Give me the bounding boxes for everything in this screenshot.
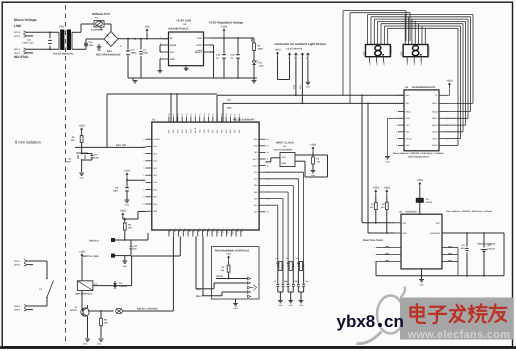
svg-text:Y3: Y3 <box>296 257 298 260</box>
svg-text:1: 1 <box>288 57 289 60</box>
svg-text:RB7: RB7 <box>183 229 186 233</box>
svg-text:65: 65 <box>181 114 184 116</box>
svg-text:RG3: RG3 <box>190 129 193 133</box>
svg-text:8: 8 <box>143 188 144 191</box>
svg-text:CZ-2T-2004-04: CZ-2T-2004-04 <box>286 48 303 51</box>
svg-text:RG5: RG5 <box>254 145 258 148</box>
svg-text:8: 8 <box>396 144 397 147</box>
svg-text:GND: GND <box>170 58 175 61</box>
svg-text:+3.3V Regulated Voltage: +3.3V Regulated Voltage <box>209 20 244 24</box>
svg-text:9: 9 <box>143 196 144 199</box>
svg-text:33: 33 <box>250 229 253 231</box>
svg-text:CLK: CLK <box>282 156 287 159</box>
svg-text:55: 55 <box>225 114 228 116</box>
svg-text:100n: 100n <box>460 247 465 250</box>
svg-text:10: 10 <box>446 137 448 140</box>
svg-text:INPUT CLOCK: INPUT CLOCK <box>276 141 294 144</box>
svg-text:C6: C6 <box>284 280 286 283</box>
svg-text:50: 50 <box>267 138 269 141</box>
svg-text:SEGG: SEGG <box>432 144 438 147</box>
svg-text:2: 2 <box>396 102 397 105</box>
svg-text:RG2: RG2 <box>185 129 188 133</box>
svg-text:32: 32 <box>245 229 248 231</box>
svg-text:CKOUT: CKOUT <box>406 137 414 140</box>
svg-text:48: 48 <box>267 151 269 154</box>
svg-text:RD5: RD5 <box>202 229 205 233</box>
svg-text:+3V3: +3V3 <box>310 143 317 146</box>
svg-text:OSC1: OSC1 <box>253 158 258 161</box>
svg-text:10: 10 <box>142 203 144 206</box>
svg-text:9: 9 <box>446 144 447 147</box>
svg-text:CAP-: CAP- <box>406 124 411 127</box>
svg-text:100n: 100n <box>94 157 100 160</box>
svg-text:SQW/INTB: SQW/INTB <box>430 232 441 235</box>
svg-text:RB1: RB1 <box>254 191 258 194</box>
svg-text:+3V3: +3V3 <box>79 124 86 127</box>
svg-text:SEGA: SEGA <box>432 102 438 105</box>
svg-text:PROGRAMMING INTERFACE: PROGRAMMING INTERFACE <box>215 250 250 253</box>
svg-text:100n: 100n <box>113 190 119 193</box>
svg-text:4: 4 <box>374 260 375 263</box>
svg-text:53: 53 <box>234 114 237 116</box>
svg-text:+3V3: +3V3 <box>417 179 424 182</box>
svg-text:GND: GND <box>233 307 238 310</box>
svg-text:RC0: RC0 <box>236 229 239 233</box>
svg-text:66: 66 <box>177 114 180 116</box>
svg-text:JP3-2: JP3-2 <box>14 263 21 266</box>
svg-text:+3V3: +3V3 <box>221 25 228 28</box>
svg-text:10n: 10n <box>133 248 137 251</box>
svg-text:GND: GND <box>406 117 411 120</box>
svg-text:SDA: SDA <box>227 107 232 110</box>
svg-text:RB3: RB3 <box>153 196 157 199</box>
svg-text:SDA: SDA <box>403 232 408 235</box>
svg-text:SEGD: SEGD <box>432 124 438 127</box>
svg-text:RECTIFIER-BRIDGE: RECTIFIER-BRIDGE <box>96 53 121 56</box>
svg-text:OSC: OSC <box>406 131 411 134</box>
svg-text:MAX6958/6959AAPE: MAX6958/6959AAPE <box>412 86 436 89</box>
svg-text:Y1: Y1 <box>275 257 277 260</box>
svg-text:Standby Battery: Standby Battery <box>478 243 496 246</box>
svg-text:GND: GND <box>419 284 424 287</box>
svg-text:T1OSO: T1OSO <box>231 229 234 236</box>
svg-text:58: 58 <box>212 114 215 116</box>
svg-text:61: 61 <box>199 114 202 116</box>
svg-text:SWITCH: SWITCH <box>89 240 99 243</box>
svg-text:RF7: RF7 <box>212 130 215 133</box>
svg-text:JP1-1: JP1-1 <box>14 31 21 34</box>
svg-text:RK2: RK2 <box>153 152 157 155</box>
svg-text:C5: C5 <box>274 280 276 283</box>
svg-text:+5V: +5V <box>145 25 150 28</box>
svg-text:100n: 100n <box>143 51 149 54</box>
svg-text:LTS-4301JR: LTS-4301JR <box>390 45 393 56</box>
svg-text:7: 7 <box>143 181 144 184</box>
svg-text:PULSE SB2812-1L: PULSE SB2812-1L <box>53 53 74 56</box>
svg-text:SWITCH_GND: SWITCH_GND <box>82 255 98 258</box>
svg-text:RG4: RG4 <box>198 129 201 133</box>
svg-text:OSC2: OSC2 <box>221 229 224 234</box>
svg-text:1N4148: 1N4148 <box>119 285 127 288</box>
svg-text:DS1337U+: DS1337U+ <box>406 211 418 214</box>
svg-text:Slave Address = 1101000 = 0x68: Slave Address = 1101000 = 0x68 (hex) = 1… <box>446 210 492 213</box>
svg-text:3: 3 <box>374 253 375 256</box>
svg-text:RF3: RF3 <box>229 130 232 133</box>
svg-text:JP4-2: JP4-2 <box>14 308 21 311</box>
svg-text:CR1025: CR1025 <box>488 247 496 250</box>
svg-text:+3V3: +3V3 <box>446 79 453 82</box>
svg-text:GND: GND <box>83 343 88 346</box>
svg-text:68: 68 <box>168 114 171 116</box>
svg-text:4: 4 <box>143 160 144 163</box>
svg-text:6: 6 <box>143 174 144 177</box>
svg-text:56: 56 <box>221 114 224 116</box>
svg-text:JP3-1: JP3-1 <box>14 260 21 263</box>
svg-text:RC1: RC1 <box>241 229 244 233</box>
svg-text:63: 63 <box>190 114 193 116</box>
svg-text:RC2: RC2 <box>254 171 258 174</box>
svg-text:12: 12 <box>446 124 448 127</box>
svg-text:RB4: RB4 <box>169 229 172 233</box>
svg-text:GND: GND <box>385 161 390 164</box>
svg-text:2: 2 <box>374 246 375 249</box>
svg-text:+3.3V LDO: +3.3V LDO <box>176 19 192 23</box>
svg-text:JP4-1: JP4-1 <box>14 305 21 308</box>
svg-text:LTS-4301JR: LTS-4301JR <box>427 45 430 56</box>
svg-text:KT16P600B: KT16P600B <box>91 29 103 32</box>
svg-text:U1: U1 <box>152 118 156 121</box>
svg-text:N.C.: N.C. <box>170 51 175 54</box>
svg-text:MCLR: MCLR <box>194 127 197 133</box>
svg-text:3.3nF / 1kV: 3.3nF / 1kV <box>22 42 34 45</box>
svg-text:GND: GND <box>97 49 102 52</box>
svg-text:60: 60 <box>203 114 206 116</box>
svg-text:Y2: Y2 <box>285 257 287 260</box>
svg-text:Without PTC: Without PTC <box>92 12 111 16</box>
svg-text:SEGB: SEGB <box>432 110 438 113</box>
svg-text:T1OSI: T1OSI <box>226 229 229 235</box>
svg-text:ybx8: ybx8 <box>337 312 376 331</box>
svg-text:RE0: RE0 <box>172 130 175 134</box>
svg-text:1000u: 1000u <box>131 51 138 54</box>
svg-text:57: 57 <box>216 114 219 116</box>
svg-text:+3V3: +3V3 <box>120 209 127 212</box>
svg-text:+3V3: +3V3 <box>373 186 380 189</box>
svg-text:1: 1 <box>396 94 397 97</box>
svg-text:CN2: CN2 <box>153 181 157 184</box>
svg-text:SEGC: SEGC <box>432 117 438 120</box>
svg-text:RC7/RX: RC7/RX <box>153 138 160 141</box>
svg-text:LINE: LINE <box>14 24 21 28</box>
svg-text:RELAY_CONTROL: RELAY_CONTROL <box>137 307 159 310</box>
svg-text:54: 54 <box>229 114 232 116</box>
svg-text:5: 5 <box>143 167 144 170</box>
svg-text:4: 4 <box>306 57 307 60</box>
svg-text:RB5: RB5 <box>173 229 176 233</box>
svg-text:GND: GND <box>299 304 304 307</box>
svg-text:cn: cn <box>384 312 404 331</box>
svg-text:VCC: VCC <box>436 222 441 225</box>
svg-text:Mains Voltage: Mains Voltage <box>14 18 37 22</box>
svg-text:RB5: RB5 <box>153 210 157 213</box>
svg-text:3: 3 <box>143 152 144 155</box>
svg-text:SHDN: SHDN <box>170 44 177 47</box>
svg-text:59: 59 <box>207 114 210 116</box>
svg-text:RESET: RESET <box>195 51 203 54</box>
svg-text:64: 64 <box>185 114 188 116</box>
svg-text:MCLR: MCLR <box>217 275 224 278</box>
svg-text:RD7: RD7 <box>212 229 215 233</box>
svg-text:KEY: KEY <box>67 161 72 164</box>
svg-text:SCL: SCL <box>227 99 232 102</box>
svg-text:CN2: CN2 <box>153 145 157 148</box>
svg-text:330R: 330R <box>258 48 264 51</box>
svg-text:RB4: RB4 <box>153 203 157 206</box>
svg-text:RG1: RG1 <box>181 129 184 133</box>
svg-text:GND: GND <box>311 174 316 177</box>
svg-text:RF5: RF5 <box>220 130 223 133</box>
svg-text:RD7: RD7 <box>153 167 157 170</box>
svg-text:GND: GND <box>125 204 130 207</box>
svg-text:SEGE: SEGE <box>432 131 438 134</box>
svg-text:+12V: +12V <box>79 250 85 253</box>
svg-text:GND: GND <box>289 304 294 307</box>
svg-text:52: 52 <box>238 114 241 116</box>
svg-text:47: 47 <box>267 158 269 161</box>
svg-text:PIC16LF1946-I/PT: PIC16LF1946-I/PT <box>233 118 255 121</box>
svg-text:KEY_INT: KEY_INT <box>116 144 127 147</box>
svg-text:46: 46 <box>267 164 269 167</box>
svg-text:NEUTRAL: NEUTRAL <box>14 55 29 59</box>
svg-text:RD0: RD0 <box>254 197 258 200</box>
svg-text:39: 39 <box>267 211 269 214</box>
svg-text:RE1: RE1 <box>168 130 171 134</box>
svg-text:MAX8867EUK33: MAX8867EUK33 <box>169 27 189 30</box>
svg-text:MAX7375AXR805: MAX7375AXR805 <box>274 149 293 152</box>
svg-text:8 mm isolation: 8 mm isolation <box>15 140 41 145</box>
svg-text:RF4: RF4 <box>225 130 228 133</box>
svg-text:SEGF: SEGF <box>432 137 438 140</box>
svg-text:www.elecfans.com: www.elecfans.com <box>407 329 511 341</box>
svg-text:1: 1 <box>160 36 161 39</box>
svg-text:DSP-2A4P-DL3: DSP-2A4P-DL3 <box>75 292 93 295</box>
svg-text:13: 13 <box>446 117 448 120</box>
svg-text:67: 67 <box>172 114 175 116</box>
svg-text:Connector for Ambient Light Se: Connector for Ambient Light Sensor <box>275 42 328 46</box>
svg-text:RC3: RC3 <box>254 178 258 181</box>
svg-text:OUT: OUT <box>197 37 202 40</box>
svg-text:RB6: RB6 <box>178 229 181 233</box>
svg-text:BC817: BC817 <box>70 309 78 312</box>
svg-text:RD4: RD4 <box>197 229 200 233</box>
svg-text:RA1: RA1 <box>254 211 258 214</box>
svg-text:100n: 100n <box>89 44 95 47</box>
svg-text:RG0: RG0 <box>176 129 179 133</box>
svg-text:RF6: RF6 <box>216 130 219 133</box>
svg-text:PG2: PG2 <box>153 174 157 177</box>
svg-text:RF2: RF2 <box>234 130 237 133</box>
svg-text:TR1: TR1 <box>59 26 64 29</box>
svg-text:+3V3: +3V3 <box>124 169 131 172</box>
svg-text:RA0: RA0 <box>254 138 258 141</box>
svg-text:OSC1: OSC1 <box>217 229 220 234</box>
svg-text:2: 2 <box>294 57 295 60</box>
svg-text:GND: GND <box>282 162 287 165</box>
svg-text:SDA: SDA <box>293 84 296 89</box>
svg-text:Real Time Clock: Real Time Clock <box>363 239 384 242</box>
svg-text:62: 62 <box>194 114 197 116</box>
svg-text:BAT54: BAT54 <box>426 201 433 204</box>
svg-text:3: 3 <box>301 57 302 60</box>
svg-text:GND: GND <box>97 343 102 346</box>
svg-text:OSC2: OSC2 <box>253 164 258 167</box>
svg-text:RF1: RF1 <box>238 130 241 133</box>
svg-text:LED Display Driver: LED Display Driver <box>408 155 430 158</box>
svg-text:RB0: RB0 <box>254 184 258 187</box>
svg-text:RSDA: RSDA <box>406 110 412 113</box>
svg-text:49: 49 <box>267 145 269 148</box>
svg-text:1: 1 <box>143 138 144 141</box>
svg-text:GND: GND <box>278 304 283 307</box>
svg-text:+3V3: +3V3 <box>274 48 281 51</box>
svg-text:JP2-1: JP2-1 <box>14 48 21 51</box>
svg-text:15: 15 <box>446 102 448 105</box>
svg-text:5: 5 <box>396 124 397 127</box>
svg-text:GND: GND <box>123 265 128 268</box>
svg-text:JP1-2: JP1-2 <box>14 35 21 38</box>
svg-text:C7: C7 <box>294 280 296 283</box>
svg-text:+3V3: +3V3 <box>384 186 391 189</box>
svg-text:GND: GND <box>79 177 84 180</box>
svg-text:VDD: VDD <box>406 144 411 147</box>
svg-text:RD6: RD6 <box>207 229 210 233</box>
svg-text:PGC: PGC <box>196 295 201 298</box>
svg-text:RA6: RA6 <box>153 160 157 163</box>
svg-text:7: 7 <box>396 137 397 140</box>
svg-text:6: 6 <box>396 131 397 134</box>
svg-text:LED: LED <box>259 64 264 67</box>
svg-text:GPIO: GPIO <box>197 44 203 47</box>
svg-text:RD1: RD1 <box>254 204 258 207</box>
svg-text:SDA: SDA <box>406 94 411 97</box>
svg-text:14: 14 <box>446 110 448 113</box>
svg-text:3: 3 <box>396 110 397 113</box>
svg-text:GND: GND <box>306 86 311 89</box>
svg-text:RB2: RB2 <box>153 188 157 191</box>
svg-text:11: 11 <box>446 131 448 134</box>
svg-text:RF0: RF0 <box>254 151 257 154</box>
